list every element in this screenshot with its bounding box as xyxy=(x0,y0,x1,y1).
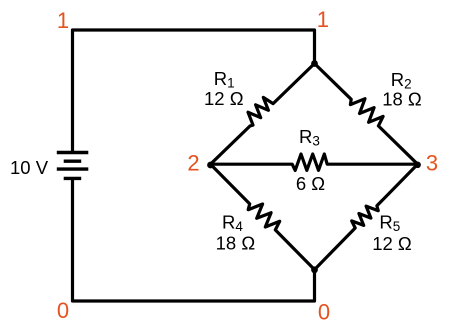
svg-text:R4: R4 xyxy=(222,212,243,235)
svg-text:18 Ω: 18 Ω xyxy=(216,233,256,254)
svg-text:1: 1 xyxy=(317,7,329,32)
svg-text:R5: R5 xyxy=(379,212,400,235)
svg-text:12 Ω: 12 Ω xyxy=(372,233,412,254)
svg-text:1: 1 xyxy=(57,8,69,33)
svg-text:R3: R3 xyxy=(299,126,320,149)
svg-text:3: 3 xyxy=(426,150,438,175)
svg-text:6 Ω: 6 Ω xyxy=(296,173,325,194)
svg-text:2: 2 xyxy=(187,150,199,175)
svg-text:0: 0 xyxy=(57,298,69,323)
svg-text:0: 0 xyxy=(318,300,330,325)
svg-text:12 Ω: 12 Ω xyxy=(204,88,244,109)
svg-text:18 Ω: 18 Ω xyxy=(382,88,422,109)
svg-text:10 V: 10 V xyxy=(10,157,49,178)
